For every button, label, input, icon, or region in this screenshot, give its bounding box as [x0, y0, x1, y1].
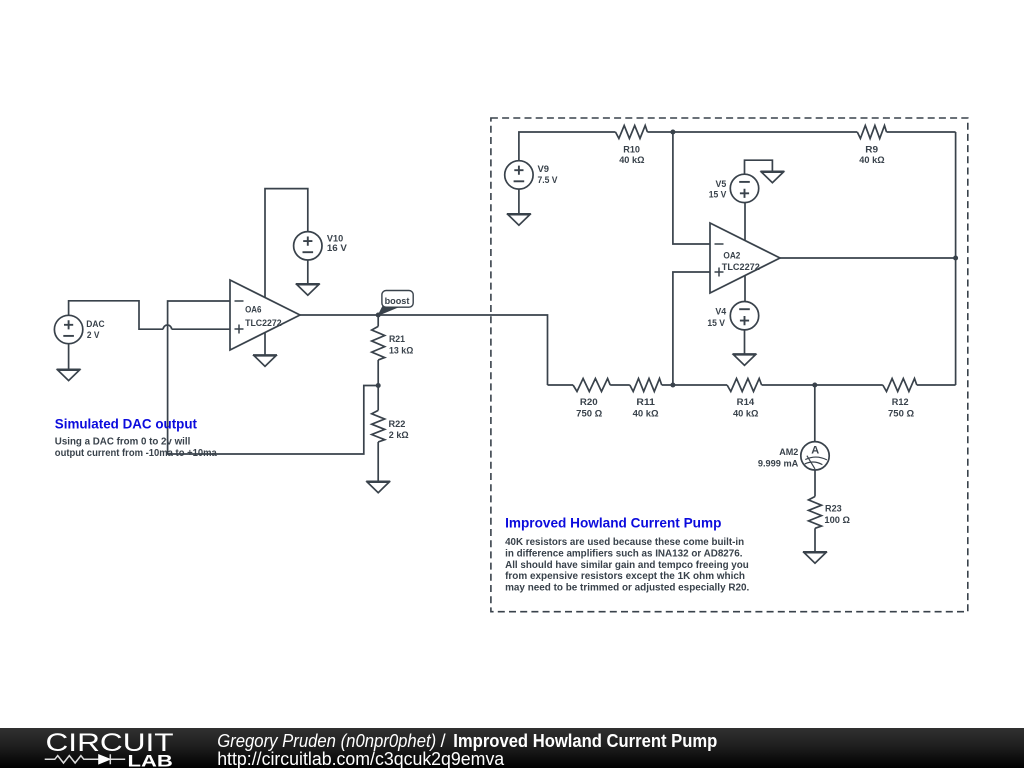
wire R10 to R9	[647, 131, 857, 133]
svg-text:OA2: OA2	[723, 250, 740, 260]
op-amp OA6	[230, 280, 300, 350]
wire junction to AM2	[814, 385, 816, 442]
node R14-R12 junction	[812, 383, 817, 388]
wire AM2 to R23	[814, 470, 816, 497]
svg-text:16 V: 16 V	[327, 243, 348, 253]
svg-text:750 Ω: 750 Ω	[576, 409, 602, 419]
wire OA2 output to right rail	[780, 257, 956, 259]
logo resistor-diode glyph	[45, 754, 126, 764]
resistor R20	[573, 379, 610, 392]
svg-text:40 kΩ: 40 kΩ	[619, 155, 644, 165]
svg-text:Using a DAC from 0 to 2v will: Using a DAC from 0 to 2v will	[55, 437, 191, 448]
ground DAC	[68, 344, 70, 370]
svg-text:2 V: 2 V	[87, 330, 100, 340]
resistor R22	[377, 386, 379, 411]
svg-text:R21: R21	[389, 334, 405, 344]
svg-text:TLC2272: TLC2272	[245, 318, 282, 328]
node boost junction	[376, 313, 381, 318]
node top junction	[670, 130, 675, 135]
svg-text:R20: R20	[580, 397, 598, 407]
wire right rail	[955, 132, 957, 385]
resistor R9	[857, 126, 886, 139]
wire feedback divider to OA6 -in	[168, 301, 379, 454]
svg-text:R9: R9	[865, 144, 878, 154]
svg-text:R14: R14	[737, 397, 755, 407]
voltage source V5	[730, 174, 758, 202]
svg-text:from expensive resistors excep: from expensive resistors except the 1K o…	[505, 571, 745, 582]
svg-text:100 Ω: 100 Ω	[824, 515, 850, 525]
svg-text:boost: boost	[385, 296, 410, 306]
footer bar	[0, 728, 1024, 768]
svg-text:OA6: OA6	[245, 304, 261, 314]
ground V9	[518, 189, 520, 214]
resistor R12	[883, 379, 917, 392]
op-amp OA2	[710, 223, 780, 293]
resistor R11	[630, 379, 662, 392]
wire top junction to OA2 -in	[673, 132, 710, 244]
wire bottom net	[548, 384, 574, 386]
svg-text:R11: R11	[636, 397, 655, 407]
svg-text:13 kΩ: 13 kΩ	[389, 345, 413, 355]
resistor R21	[377, 315, 379, 326]
ground R22	[366, 480, 390, 482]
svg-text:750 Ω: 750 Ω	[888, 409, 914, 419]
wire R9 to right rail	[887, 131, 956, 133]
svg-text:7.5 V: 7.5 V	[538, 175, 559, 185]
boundary dashed box Improved Howland Current Pump	[491, 118, 968, 612]
voltage source DAC	[54, 315, 82, 343]
svg-text:AM2: AM2	[779, 447, 798, 457]
wire V4 to ground	[744, 330, 746, 354]
svg-text:LAB: LAB	[128, 751, 173, 768]
svg-text:output current from -10ma to +: output current from -10ma to +10ma	[55, 448, 217, 459]
wire DAC to OA6 +in with hop	[69, 301, 164, 329]
resistor R14	[727, 379, 762, 392]
svg-text:TLC2272: TLC2272	[722, 262, 760, 272]
svg-text:V5: V5	[716, 179, 727, 189]
node output junction	[953, 256, 958, 261]
svg-text:40 kΩ: 40 kΩ	[633, 409, 659, 419]
svg-text:R23: R23	[825, 504, 842, 514]
node R11-R14 junction	[670, 383, 675, 388]
ground R23	[803, 551, 827, 553]
svg-text:R12: R12	[892, 397, 909, 407]
wire OA2 V- pin to V4	[744, 276, 746, 302]
wire OA6 V+ pin to V10	[265, 189, 308, 298]
svg-text:40 kΩ: 40 kΩ	[859, 155, 884, 165]
svg-text:2 kΩ: 2 kΩ	[389, 430, 409, 440]
svg-text:All should have similar gain a: All should have similar gain and tempco …	[505, 560, 749, 571]
svg-text:R10: R10	[623, 144, 640, 154]
svg-text:40K resistors are used because: 40K resistors are used because these com…	[505, 537, 744, 548]
voltage source V10	[294, 232, 322, 260]
wire V5 to ground	[745, 160, 773, 174]
svg-text:A: A	[811, 445, 819, 457]
voltage source V4	[730, 302, 758, 330]
svg-text:R22: R22	[389, 419, 406, 429]
svg-text:in difference amplifiers such: in difference amplifiers such as INA132 …	[505, 548, 743, 559]
svg-text:http://circuitlab.com/c3qcuk2q: http://circuitlab.com/c3qcuk2q9emva	[217, 748, 505, 768]
wire V9 to R10	[519, 132, 616, 161]
ground V5	[760, 170, 784, 172]
svg-text:may need to be trimmed or adju: may need to be trimmed or adjusted espec…	[505, 583, 749, 594]
ground V4	[733, 353, 757, 355]
svg-text:Improved Howland Current Pump: Improved Howland Current Pump	[505, 514, 721, 530]
wire OA2 V+ pin to V5	[744, 202, 746, 240]
wire R23 to ground	[814, 528, 816, 552]
svg-text:V9: V9	[538, 164, 550, 174]
node R21-R22 junction	[376, 383, 381, 388]
resistor R10	[616, 126, 648, 139]
svg-text:15 V: 15 V	[709, 190, 727, 200]
svg-text:40 kΩ: 40 kΩ	[733, 409, 759, 419]
ground V10	[307, 260, 309, 284]
ammeter AM2	[801, 442, 829, 470]
voltage source V9	[505, 161, 533, 189]
wire OA6 output to pump input	[300, 315, 548, 385]
svg-text:V4: V4	[715, 307, 727, 317]
svg-text:9.999 mA: 9.999 mA	[758, 458, 799, 468]
flag boost	[378, 306, 397, 316]
ground OA6 V- pin	[264, 333, 266, 355]
svg-text:Simulated DAC output: Simulated DAC output	[55, 415, 198, 431]
svg-text:15 V: 15 V	[707, 318, 725, 328]
resistor R23	[809, 497, 822, 529]
svg-text:DAC: DAC	[86, 319, 105, 329]
wire bottom junction to OA2 +in	[673, 272, 710, 385]
